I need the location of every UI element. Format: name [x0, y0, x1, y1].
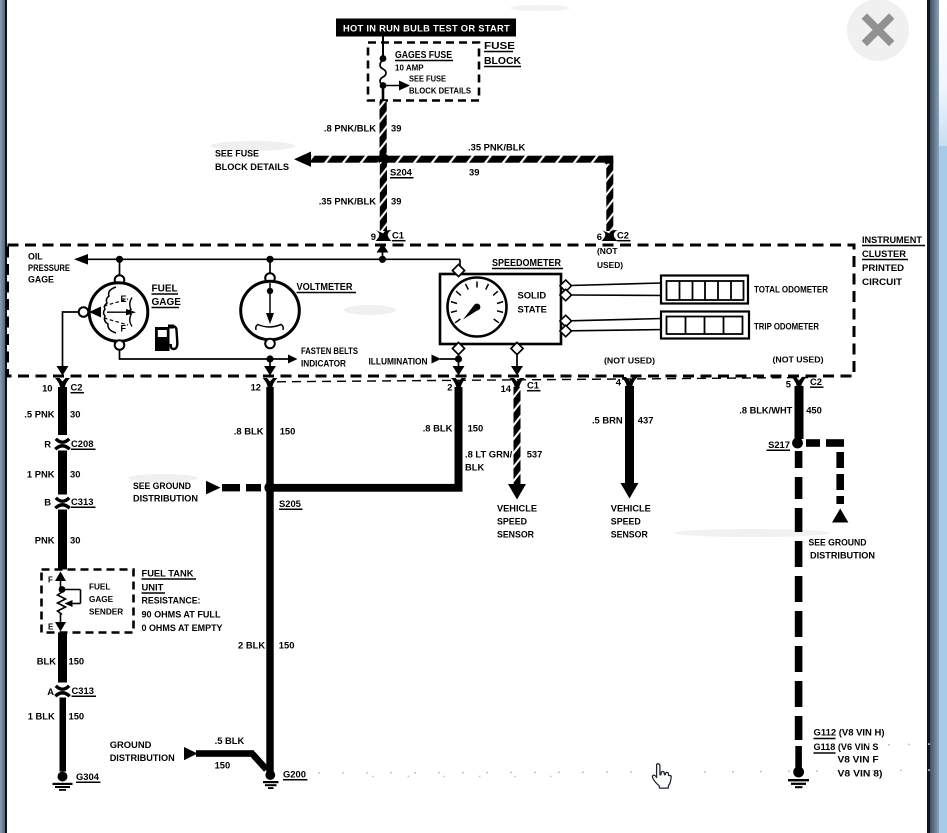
label FUEL TANK UNIT RESISTANCE: [142, 568, 224, 634]
label .35 PNK/BLK 39 (horizontal run): [468, 142, 526, 178]
fuse F1 GAGES 10A (squiggle with terminals): [380, 55, 387, 89]
svg-text:(NOT USED): (NOT USED): [773, 355, 824, 365]
svg-text:FUSE: FUSE: [484, 40, 515, 52]
svg-text:GAGE: GAGE: [89, 595, 114, 604]
svg-text:SPEEDOMETER: SPEEDOMETER: [492, 258, 562, 269]
wire to fasten belts indicator (arrow right): [270, 355, 298, 364]
svg-text:GAGE: GAGE: [28, 275, 54, 285]
close button X icon: [847, 0, 909, 61]
svg-text:6: 6: [597, 231, 602, 242]
node voltmeter bottom junction: [266, 355, 273, 362]
svg-text:.5 BRN: .5 BRN: [592, 415, 623, 426]
svg-text:2 BLK: 2 BLK: [238, 640, 265, 651]
svg-text:OIL: OIL: [28, 252, 43, 262]
svg-text:C1: C1: [392, 230, 404, 241]
wire fuse output: [382, 86, 385, 104]
wires speedometer to odometers: [570, 283, 666, 331]
arrow to SEE FUSE BLOCK DETAILS: [383, 81, 410, 91]
svg-text:4: 4: [616, 377, 622, 388]
svg-text:SPEED: SPEED: [611, 516, 641, 527]
svg-text:G112 (V8 VIN H): G112 (V8 VIN H): [814, 728, 885, 738]
svg-text:B: B: [44, 497, 51, 508]
label VOLTMETER: [297, 282, 357, 293]
svg-text:.8 LT GRN/: .8 LT GRN/: [465, 449, 513, 460]
terminal speedometer top (diamond): [452, 264, 464, 276]
sender resistor and wiper: [58, 586, 81, 614]
svg-text:(NOT: (NOT: [597, 246, 618, 256]
wire C1 pin 9 entry arrow into cluster: [377, 244, 389, 260]
svg-text:PRESSURE: PRESSURE: [28, 263, 70, 273]
svg-text:.5 BLK: .5 BLK: [215, 735, 245, 746]
label SEE FUSE BLOCK DETAILS (left): [215, 148, 289, 173]
svg-text:SPEED: SPEED: [497, 516, 527, 527]
svg-text:E: E: [48, 623, 54, 632]
connector C2 pin 5 (Y top): [786, 376, 824, 390]
svg-text:C313: C313: [71, 496, 93, 507]
svg-text:VEHICLE: VEHICLE: [611, 503, 651, 514]
svg-text:SOLID: SOLID: [518, 290, 547, 301]
svg-text:BLOCK DETAILS: BLOCK DETAILS: [409, 87, 472, 96]
svg-text:SENSOR: SENSOR: [497, 529, 534, 540]
svg-text:10 AMP: 10 AMP: [395, 64, 424, 73]
svg-text:INDICATOR: INDICATOR: [301, 359, 346, 369]
wire speedometer to C1 pin 14: [511, 353, 523, 376]
wire 12 continues to G200: [266, 483, 273, 773]
label .8 BLK 150 (pin 2): [423, 423, 484, 434]
svg-text:SENDER: SENDER: [89, 608, 123, 617]
svg-text:F: F: [48, 576, 53, 585]
node voltmeter feed: [266, 256, 273, 263]
svg-text:30: 30: [70, 535, 80, 546]
wire PNK 30: [58, 510, 67, 570]
wire arrow SEE FUSE BLOCK DETAILS (striped, to left): [294, 152, 380, 167]
connector C313 pin A (inline break): [47, 685, 96, 697]
wire .8 BLK/WHT 450: [795, 386, 804, 439]
wire node to C1 pin 2: [453, 359, 465, 376]
trip odometer display: [661, 312, 749, 339]
ground G112/G118: [788, 767, 809, 789]
svg-text:PRINTED: PRINTED: [862, 262, 904, 273]
svg-text:R: R: [44, 439, 51, 450]
icon gas pump: [155, 325, 177, 352]
svg-text:150: 150: [69, 656, 85, 667]
svg-text:RESISTANCE:: RESISTANCE:: [142, 595, 201, 606]
svg-text:DISTRIBUTION: DISTRIBUTION: [110, 752, 175, 763]
svg-text:FUEL TANK: FUEL TANK: [142, 568, 194, 579]
svg-text:C208: C208: [71, 438, 93, 449]
wire .35 PNK/BLK 39 (striped, S204 down to C1 pin 9): [380, 162, 387, 231]
svg-text:G304: G304: [76, 771, 100, 782]
svg-text:HOT IN RUN BULB TEST OR START: HOT IN RUN BULB TEST OR START: [343, 24, 510, 35]
svg-text:30: 30: [70, 409, 80, 420]
ground G304: [53, 771, 101, 791]
svg-text:F: F: [121, 324, 127, 334]
svg-text:C1: C1: [527, 380, 539, 391]
svg-text:STATE: STATE: [518, 304, 547, 315]
wire .8 PNK/BLK 39 (striped, fuse to S204): [380, 101, 387, 156]
svg-text:150: 150: [280, 426, 296, 437]
label SPEEDOMETER: [492, 258, 563, 269]
svg-text:C2: C2: [810, 376, 822, 387]
svg-text:PNK: PNK: [35, 535, 55, 546]
svg-text:VEHICLE: VEHICLE: [497, 503, 537, 514]
svg-text:G118 (V6 VIN S: G118 (V6 VIN S: [814, 742, 879, 752]
label FUSE BLOCK: [484, 40, 521, 67]
wire fuel gage top stub: [119, 259, 121, 275]
wire see-ground feed (arrow + dashes into S205): [206, 481, 261, 495]
svg-text:1 BLK: 1 BLK: [28, 711, 55, 722]
connector pin 4 (Y top): [616, 377, 638, 389]
svg-text:SEE GROUND: SEE GROUND: [809, 537, 867, 548]
label FUEL GAGE SENDER: [89, 583, 123, 617]
svg-text:537: 537: [527, 449, 543, 460]
wire S217 branch to ground distribution (dashed with up arrow): [806, 439, 848, 522]
label FUEL GAGE: [152, 284, 182, 309]
scan noise dotted lines: [318, 744, 940, 777]
svg-text:C2: C2: [617, 230, 629, 241]
svg-text:USED): USED): [597, 260, 623, 270]
svg-text:SEE FUSE: SEE FUSE: [409, 75, 447, 84]
splice S217: [767, 438, 803, 451]
label SOLID STATE: [518, 290, 547, 315]
svg-text:.8 BLK: .8 BLK: [234, 426, 264, 437]
mouse cursor (hand pointer): [652, 764, 671, 788]
fuel tank unit dashed box: [42, 570, 134, 633]
connector pin 12 (Y top): [251, 378, 278, 393]
fuse block dashed box: [368, 43, 479, 101]
total odometer display: [661, 276, 748, 304]
wire from banner into fuse block: [382, 37, 384, 57]
svg-text:INSTRUMENT: INSTRUMENT: [862, 234, 922, 245]
svg-text:SENSOR: SENSOR: [611, 529, 648, 540]
svg-text:0 OHMS AT EMPTY: 0 OHMS AT EMPTY: [142, 622, 224, 633]
svg-text:9: 9: [371, 231, 376, 242]
label FASTEN BELTS INDICATOR: [301, 346, 358, 369]
svg-text:39: 39: [469, 167, 479, 178]
label 2 BLK 150: [238, 640, 294, 651]
label G112 G118 VIN: [814, 728, 885, 779]
svg-text:.5 PNK: .5 PNK: [24, 409, 54, 420]
svg-text:(NOT USED): (NOT USED): [604, 356, 655, 366]
svg-text:39: 39: [391, 196, 401, 207]
label SEE GROUND DISTRIBUTION (S217): [809, 537, 876, 561]
svg-text:150: 150: [279, 640, 295, 651]
svg-text:1 PNK: 1 PNK: [27, 469, 55, 480]
connector C313 pin B (inline break): [44, 496, 95, 508]
svg-text:C313: C313: [72, 685, 94, 696]
connector C1 pin 9 (wire end Y): [371, 230, 406, 243]
wire 1 BLK 150: [60, 698, 67, 772]
label .8 LT GRN/BLK 537: [465, 449, 542, 473]
svg-text:ILLUMINATION: ILLUMINATION: [369, 357, 428, 367]
terminal speedometer bottom left (diamond): [452, 342, 464, 354]
svg-text:S204: S204: [390, 167, 413, 178]
svg-text:30: 30: [70, 469, 80, 480]
svg-text:E: E: [121, 294, 127, 304]
connector C2 pin 10 (Y top): [42, 378, 84, 394]
svg-text:FUEL: FUEL: [89, 583, 110, 592]
svg-text:150: 150: [468, 423, 484, 434]
node C1-9 feed: [379, 256, 386, 263]
scan haze smudges: [128, 5, 830, 537]
label VEHICLE SPEED SENSOR (left): [497, 503, 537, 540]
wire fuel gage to C2 pin 10: [57, 311, 79, 375]
sender terminal F (arrow up): [48, 572, 66, 589]
svg-text:10: 10: [42, 383, 52, 394]
svg-text:39: 39: [391, 123, 401, 134]
svg-text:SEE GROUND: SEE GROUND: [133, 480, 191, 491]
svg-text:437: 437: [638, 415, 654, 426]
left black border line: [5, 0, 7, 833]
harness connector dashed line below cluster: [277, 378, 808, 382]
label .35 PNK/BLK 39 (lower run): [319, 196, 402, 207]
svg-text:2: 2: [447, 382, 452, 393]
right bar light blue track: [939, 0, 947, 833]
wire internal bus to oil pressure gage (arrow left): [74, 254, 460, 265]
svg-text:C2: C2: [71, 382, 83, 393]
label INSTRUMENT CLUSTER PRINTED CIRCUIT: [862, 234, 925, 287]
left page edge blue bar: [0, 0, 5, 833]
gauge M2 voltmeter: [241, 273, 300, 348]
svg-text:TOTAL ODOMETER: TOTAL ODOMETER: [754, 285, 828, 295]
label OIL PRESSURE GAGE: [28, 252, 70, 285]
label SEE GROUND DISTRIBUTION (S205): [133, 480, 198, 504]
wire bus drop to speedometer: [459, 259, 461, 267]
svg-text:V8 VIN F: V8 VIN F: [838, 755, 880, 765]
svg-text:.8 PNK/BLK: .8 PNK/BLK: [324, 123, 376, 134]
wire fuel gage bottom to voltmeter node: [119, 350, 270, 359]
wire 1 PNK 30: [58, 451, 67, 495]
svg-text:BLK: BLK: [37, 656, 56, 667]
wire voltmeter top stub: [269, 259, 271, 275]
svg-text:FASTEN BELTS: FASTEN BELTS: [301, 346, 358, 356]
svg-text:FUEL: FUEL: [152, 284, 178, 295]
right bar gradient segment: [930, 0, 939, 833]
wire BLK 150: [58, 633, 67, 683]
sender terminal E (arrow down): [48, 614, 66, 632]
terminal speedometer bottom right (diamond): [511, 342, 523, 354]
wire .5 PNK 30: [58, 387, 67, 435]
svg-text:.8 BLK: .8 BLK: [423, 423, 453, 434]
node illumination / speedometer: [455, 355, 462, 362]
ground G200: [263, 769, 308, 790]
svg-text:.8 BLK/WHT: .8 BLK/WHT: [739, 405, 792, 416]
wire node up to speedometer terminal: [458, 350, 460, 359]
label (NOT USED) under C2 pin 6: [597, 246, 623, 270]
svg-text:14: 14: [501, 383, 512, 394]
svg-text:450: 450: [806, 405, 822, 416]
svg-text:BLK: BLK: [465, 462, 484, 473]
label .8 PNK/BLK 39: [324, 123, 402, 134]
wire S217 to G112 (dashed): [795, 451, 803, 768]
wire illumination feed (arrow right into node): [432, 355, 459, 364]
svg-text:CLUSTER: CLUSTER: [862, 248, 906, 259]
label GROUND DISTRIBUTION (bottom): [110, 739, 175, 763]
svg-text:G200: G200: [283, 769, 306, 780]
svg-text:150: 150: [69, 711, 85, 722]
svg-text:S217: S217: [768, 439, 790, 450]
terminals speedometer right side (4 diamonds): [560, 280, 572, 337]
svg-text:GAGES FUSE: GAGES FUSE: [395, 50, 452, 61]
right bar white highlight (scroll thumb): [939, 0, 947, 146]
svg-text:DISTRIBUTION: DISTRIBUTION: [810, 550, 875, 561]
svg-text:A: A: [47, 686, 54, 697]
node fuel gage feed: [116, 256, 123, 263]
svg-text:V8 VIN 8): V8 VIN 8): [838, 769, 883, 779]
banner HOT IN RUN BULB TEST OR START: [336, 19, 516, 37]
svg-text:.35 PNK/BLK: .35 PNK/BLK: [468, 142, 526, 153]
svg-text:GROUND: GROUND: [110, 739, 152, 750]
connector C2 pin 6 (wire end Y): [597, 230, 631, 243]
svg-text:5: 5: [786, 379, 791, 390]
svg-text:TRIP ODOMETER: TRIP ODOMETER: [754, 322, 819, 332]
svg-text:.35 PNK/BLK: .35 PNK/BLK: [319, 196, 377, 207]
wire .35 PNK/BLK 39 (striped, S204 to C2 pin 6): [378, 154, 613, 231]
svg-text:BLOCK: BLOCK: [484, 55, 521, 67]
svg-text:S205: S205: [279, 498, 301, 509]
wire .8 BLK 150 (pin 12 to S205): [266, 387, 273, 483]
wire voltmeter junction to C2 pin 12: [264, 359, 276, 376]
connector C1 pin 14 (Y top): [501, 378, 541, 394]
close button circle: [847, 0, 909, 61]
svg-text:12: 12: [251, 382, 261, 393]
wire S205 to C1 pin 2 drop: [272, 387, 463, 492]
svg-text:DISTRIBUTION: DISTRIBUTION: [133, 493, 198, 504]
svg-text:CIRCUIT: CIRCUIT: [862, 276, 902, 287]
wire .8 LT GRN/BLK 537 (striped, to VSS): [508, 387, 526, 500]
svg-text:BLOCK DETAILS: BLOCK DETAILS: [215, 161, 289, 172]
svg-text:90 OHMS AT FULL: 90 OHMS AT FULL: [142, 609, 221, 620]
svg-text:GAGE: GAGE: [152, 297, 182, 308]
label VEHICLE SPEED SENSOR (right): [611, 503, 651, 540]
svg-text:150: 150: [215, 759, 231, 770]
connector C208 pin R (inline break): [44, 438, 95, 450]
label SEE FUSE BLOCK DETAILS (inside fuse block): [409, 75, 472, 96]
connector C1 pin 2 (Y top): [447, 378, 466, 393]
gauge M1 fuel gage: [79, 275, 148, 350]
svg-text:SEE FUSE: SEE FUSE: [215, 148, 259, 159]
wire .5 BLK 150 ground distribution: [184, 735, 267, 770]
instrument cluster dashed box: [8, 245, 855, 376]
label GAGES FUSE 10 AMP: [395, 50, 453, 73]
svg-text:UNIT: UNIT: [142, 582, 164, 593]
label .5 BRN 437: [592, 415, 653, 426]
svg-text:VOLTMETER: VOLTMETER: [297, 282, 354, 293]
wire .5 BRN 437 (to VSS): [621, 386, 639, 499]
speedometer U1 box: [440, 274, 561, 344]
splice S205: [264, 482, 302, 509]
right black border line: [927, 0, 930, 833]
splice S204: [378, 154, 414, 178]
